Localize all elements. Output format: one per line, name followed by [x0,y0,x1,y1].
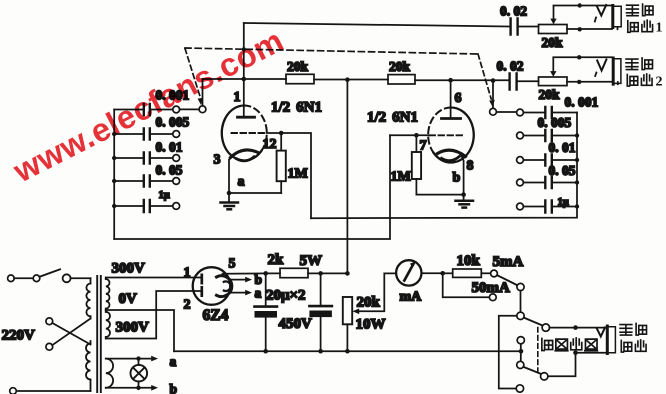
svg-text:20k: 20k [539,87,561,102]
wire 6Z4 cathode pin5 to filter [223,272,266,274]
svg-text:300V: 300V [116,320,150,336]
svg-text:220V: 220V [2,328,36,344]
svg-text:10k: 10k [457,253,481,269]
capacitor C2 20u 450V [309,273,332,351]
switch S1 (mains) [14,269,90,282]
wire stage plate line (middle segment) [314,79,388,81]
range switch pivot [517,283,524,290]
wire pot2 wiper to jack2 tip [553,55,612,59]
node 6Z4 output junction [263,271,268,276]
svg-text:0. 02: 0. 02 [497,59,524,74]
node rail dots [263,349,523,354]
reversing switch mid contact upper [517,337,524,344]
capacitor 0.01 (left row3) [114,153,179,164]
svg-text:0. 05: 0. 05 [549,163,576,178]
label 顺反开关 [542,338,598,351]
primary tap selector [46,318,91,350]
node rail to reversing switch mid contacts [520,344,522,361]
tube V1b envelope (solid arc) [434,107,474,162]
svg-text:20k: 20k [542,35,564,50]
node C2 top junction [318,271,323,276]
svg-text:5mA: 5mA [493,254,524,270]
mains terminal upper [8,275,15,282]
wire bypass (pole top to bottom contact) [499,316,517,389]
capacitor 0.001 (right row1) [517,107,577,118]
wire pot1 wiper to jack1 tip [554,3,612,7]
wire meter to range node [422,271,446,276]
svg-text:20μ×2: 20μ×2 [266,288,306,304]
reversing switch blade lower [523,367,541,374]
node V1b grid / 1M junction [414,133,419,138]
capacitor 0.005 (left row2) [114,129,179,140]
6Z4 cathode arc [217,276,232,297]
svg-text:20k: 20k [389,59,411,74]
capacitor 0.001 (left row1) [114,104,179,115]
reversing switch pole top contact [517,312,524,319]
wire left wiper lead [202,79,204,106]
tube V1b plate lead [450,80,452,117]
svg-text:5: 5 [229,257,236,272]
svg-text:10W: 10W [356,317,386,333]
svg-text:6: 6 [455,91,462,106]
dashed ganged-switch linkage line [185,48,478,54]
resistor 20k 10W (bleeder) [343,297,352,351]
reversing switch blade upper [524,318,543,326]
svg-text:1M: 1M [391,170,411,185]
tube V1a envelope (dashed arc) [244,106,266,151]
node V1a grid / 1M junction [279,131,284,136]
meter mA [396,260,421,285]
right selector wiper contact [490,108,517,115]
node linkage crossing [242,47,246,51]
rectifier 6Z4 envelope [193,267,231,305]
ground (stage1 cathode) [221,193,239,209]
jack socket (DC output) [607,326,615,354]
svg-text:2: 2 [184,298,191,313]
svg-text:20k: 20k [357,295,381,311]
resistor 2k 5W [266,268,348,277]
wire tube1 plate to output 1 (top line) [244,23,510,27]
tube V1a grid (dashed) [232,132,267,134]
svg-text:0. 01: 0. 01 [549,140,576,155]
svg-text:0V: 0V [119,291,138,307]
resistor 1M (stage1 grid) [277,133,286,193]
resistor 20k (stage2 plate) [388,75,415,84]
tube V1a plate bar [238,116,255,119]
svg-text:1: 1 [234,90,241,105]
wire stage plate line (left segment) [203,78,287,80]
svg-text:0. 01: 0. 01 [156,140,183,155]
tube V1a envelope (solid arc) [222,105,262,160]
capacitor 0.01 (right row3) [517,155,577,166]
potentiometer 20k (output 1) [539,7,568,34]
wire pivot to reversing switch [520,291,522,312]
svg-text:1/2 6N1: 1/2 6N1 [271,100,322,116]
wire V1a cathode to 1M bottom [227,191,282,196]
plug symbol V (DC output) [597,328,605,337]
svg-text:1/2 6N1: 1/2 6N1 [367,110,418,126]
dashed linkage (reversing switch) [537,328,539,374]
node bus dots left bank [112,132,116,208]
wire filament b [106,385,158,391]
capacitor 0.05 (left row4) [114,176,179,187]
right capacitor bank bus [311,113,577,219]
mains terminal lower [10,388,91,394]
transformer HV secondary winding [106,278,110,339]
capacitor 1u (right row5) [517,201,577,213]
tube V1a cathode arc [231,150,259,161]
wire V1b cathode pin8 lead [462,156,464,195]
wire pot2 end to jack2 sleeve [567,80,618,84]
transformer T primary winding [86,278,91,391]
lamp (pilot) [131,359,148,388]
capacitor 1u (left row5) [114,200,179,212]
tube V1b cathode arc [438,150,466,160]
transformer filament winding [106,359,113,388]
wire V1b grid lead [390,134,430,136]
transformer core [97,276,101,392]
reversing switch right top contact [542,324,549,331]
node B+ filter junction [345,271,350,276]
jack socket (induction output 2) [613,58,621,84]
tube V1b plate bar [442,117,461,120]
svg-text:12: 12 [263,137,277,152]
dashed linkage diagonal to left wiper [185,49,203,106]
wire 50mA branch [443,273,490,297]
label 感应输出2 [626,58,662,90]
6Z4 heater arrow a [229,290,252,296]
dashed linkage diagonal to right wiper [478,54,495,107]
contact 5mA [491,270,498,277]
wire to DC jack sleeve [548,351,607,377]
svg-text:8: 8 [467,159,474,174]
tube V1b grid (dashed) [430,134,463,136]
wire 0V tap to negative rail [106,310,174,351]
bleeder wiper arm to meter [352,273,396,314]
svg-text:2: 2 [656,75,663,90]
range switch blade [497,275,517,285]
wire pot1 end to jack1 sleeve [567,27,618,31]
resistor 1M (stage2 grid) [412,135,421,194]
wire 300V lower tap to 6Z4 plate2 [106,291,202,339]
capacitor 0.05 (right row4) [517,177,577,188]
reversing switch bottom contact [516,385,523,392]
label 感应输出1 [627,4,663,35]
plug symbol V (output 2) [595,60,606,77]
svg-text:mA: mA [400,290,423,305]
resistor 20k (stage1 plate) [286,74,314,83]
svg-text:6Z4: 6Z4 [203,307,229,324]
plug symbol V (output 1) [595,5,606,22]
reversing switch mid contact lower [517,361,524,368]
svg-text:a: a [255,286,262,301]
negative rail [174,350,521,352]
6Z4 heater arrow b [229,277,252,283]
svg-text:1M: 1M [288,167,308,182]
node tube2 plate junction [448,78,453,83]
op... tube V1a plate lead [243,23,245,115]
potentiometer 20k (output 2) [539,59,568,86]
svg-text:b: b [170,382,178,394]
node tube1 plate junction [242,77,247,82]
capacitor 0.02 (output 2 coupling) [510,74,539,90]
6Z4 plate bars [200,275,203,296]
svg-text:3: 3 [214,153,221,168]
capacitor C1 20u 450V [255,273,278,351]
wire filament a [106,356,158,362]
svg-text:1: 1 [184,266,191,281]
wire stage plate line (right segment) [415,79,510,81]
svg-text:0. 005: 0. 005 [538,115,572,130]
jack socket (induction output 1) [613,6,621,28]
wire V1a cathode pin3 lead [229,155,234,194]
ground (stage2 cathode) [456,195,474,208]
wire grid bus (bottom) to tube2 grid [114,135,390,239]
reversing switch right bottom contact [541,373,548,380]
capacitor 0.02 (output 1 coupling) [511,19,539,35]
label 直流输出 [620,323,646,352]
svg-text:450V: 450V [279,316,313,332]
svg-text:b: b [453,171,461,186]
contact 50mA [489,294,496,301]
svg-text:0. 001: 0. 001 [565,95,599,110]
tube V1b envelope (dashed arc) [428,108,451,153]
left capacitor bank bus [113,110,115,240]
svg-text:1μ: 1μ [159,190,170,201]
svg-text:a: a [238,175,245,190]
left selector wiper contact [180,106,206,113]
wire V1b cathode to 1M bottom [416,192,466,197]
svg-text:a: a [170,354,177,369]
node bus dots right bank [575,133,579,208]
svg-text:0. 02: 0. 02 [500,4,527,19]
wire 300V upper tap to 6Z4 plate1 [106,277,202,279]
svg-text:2k: 2k [268,252,285,268]
svg-text:1: 1 [656,21,663,36]
svg-text:50mA: 50mA [472,280,510,296]
svg-text:1μ: 1μ [558,197,569,208]
svg-text:300V: 300V [112,261,146,277]
wire right wiper lead [492,81,494,109]
svg-text:0. 05: 0. 05 [156,163,183,178]
resistor 10k (range) [443,269,491,277]
wire V1a grid lead to feedback [267,133,312,218]
svg-text:20k: 20k [287,59,309,74]
node right wiper junction [491,78,496,83]
svg-text:5W: 5W [300,253,323,269]
wire B+ vertical [346,80,348,274]
node B+ junction on plate line [345,77,350,82]
wire to DC jack tip [550,325,608,330]
capacitor 0.005 (right row2) [517,130,577,141]
